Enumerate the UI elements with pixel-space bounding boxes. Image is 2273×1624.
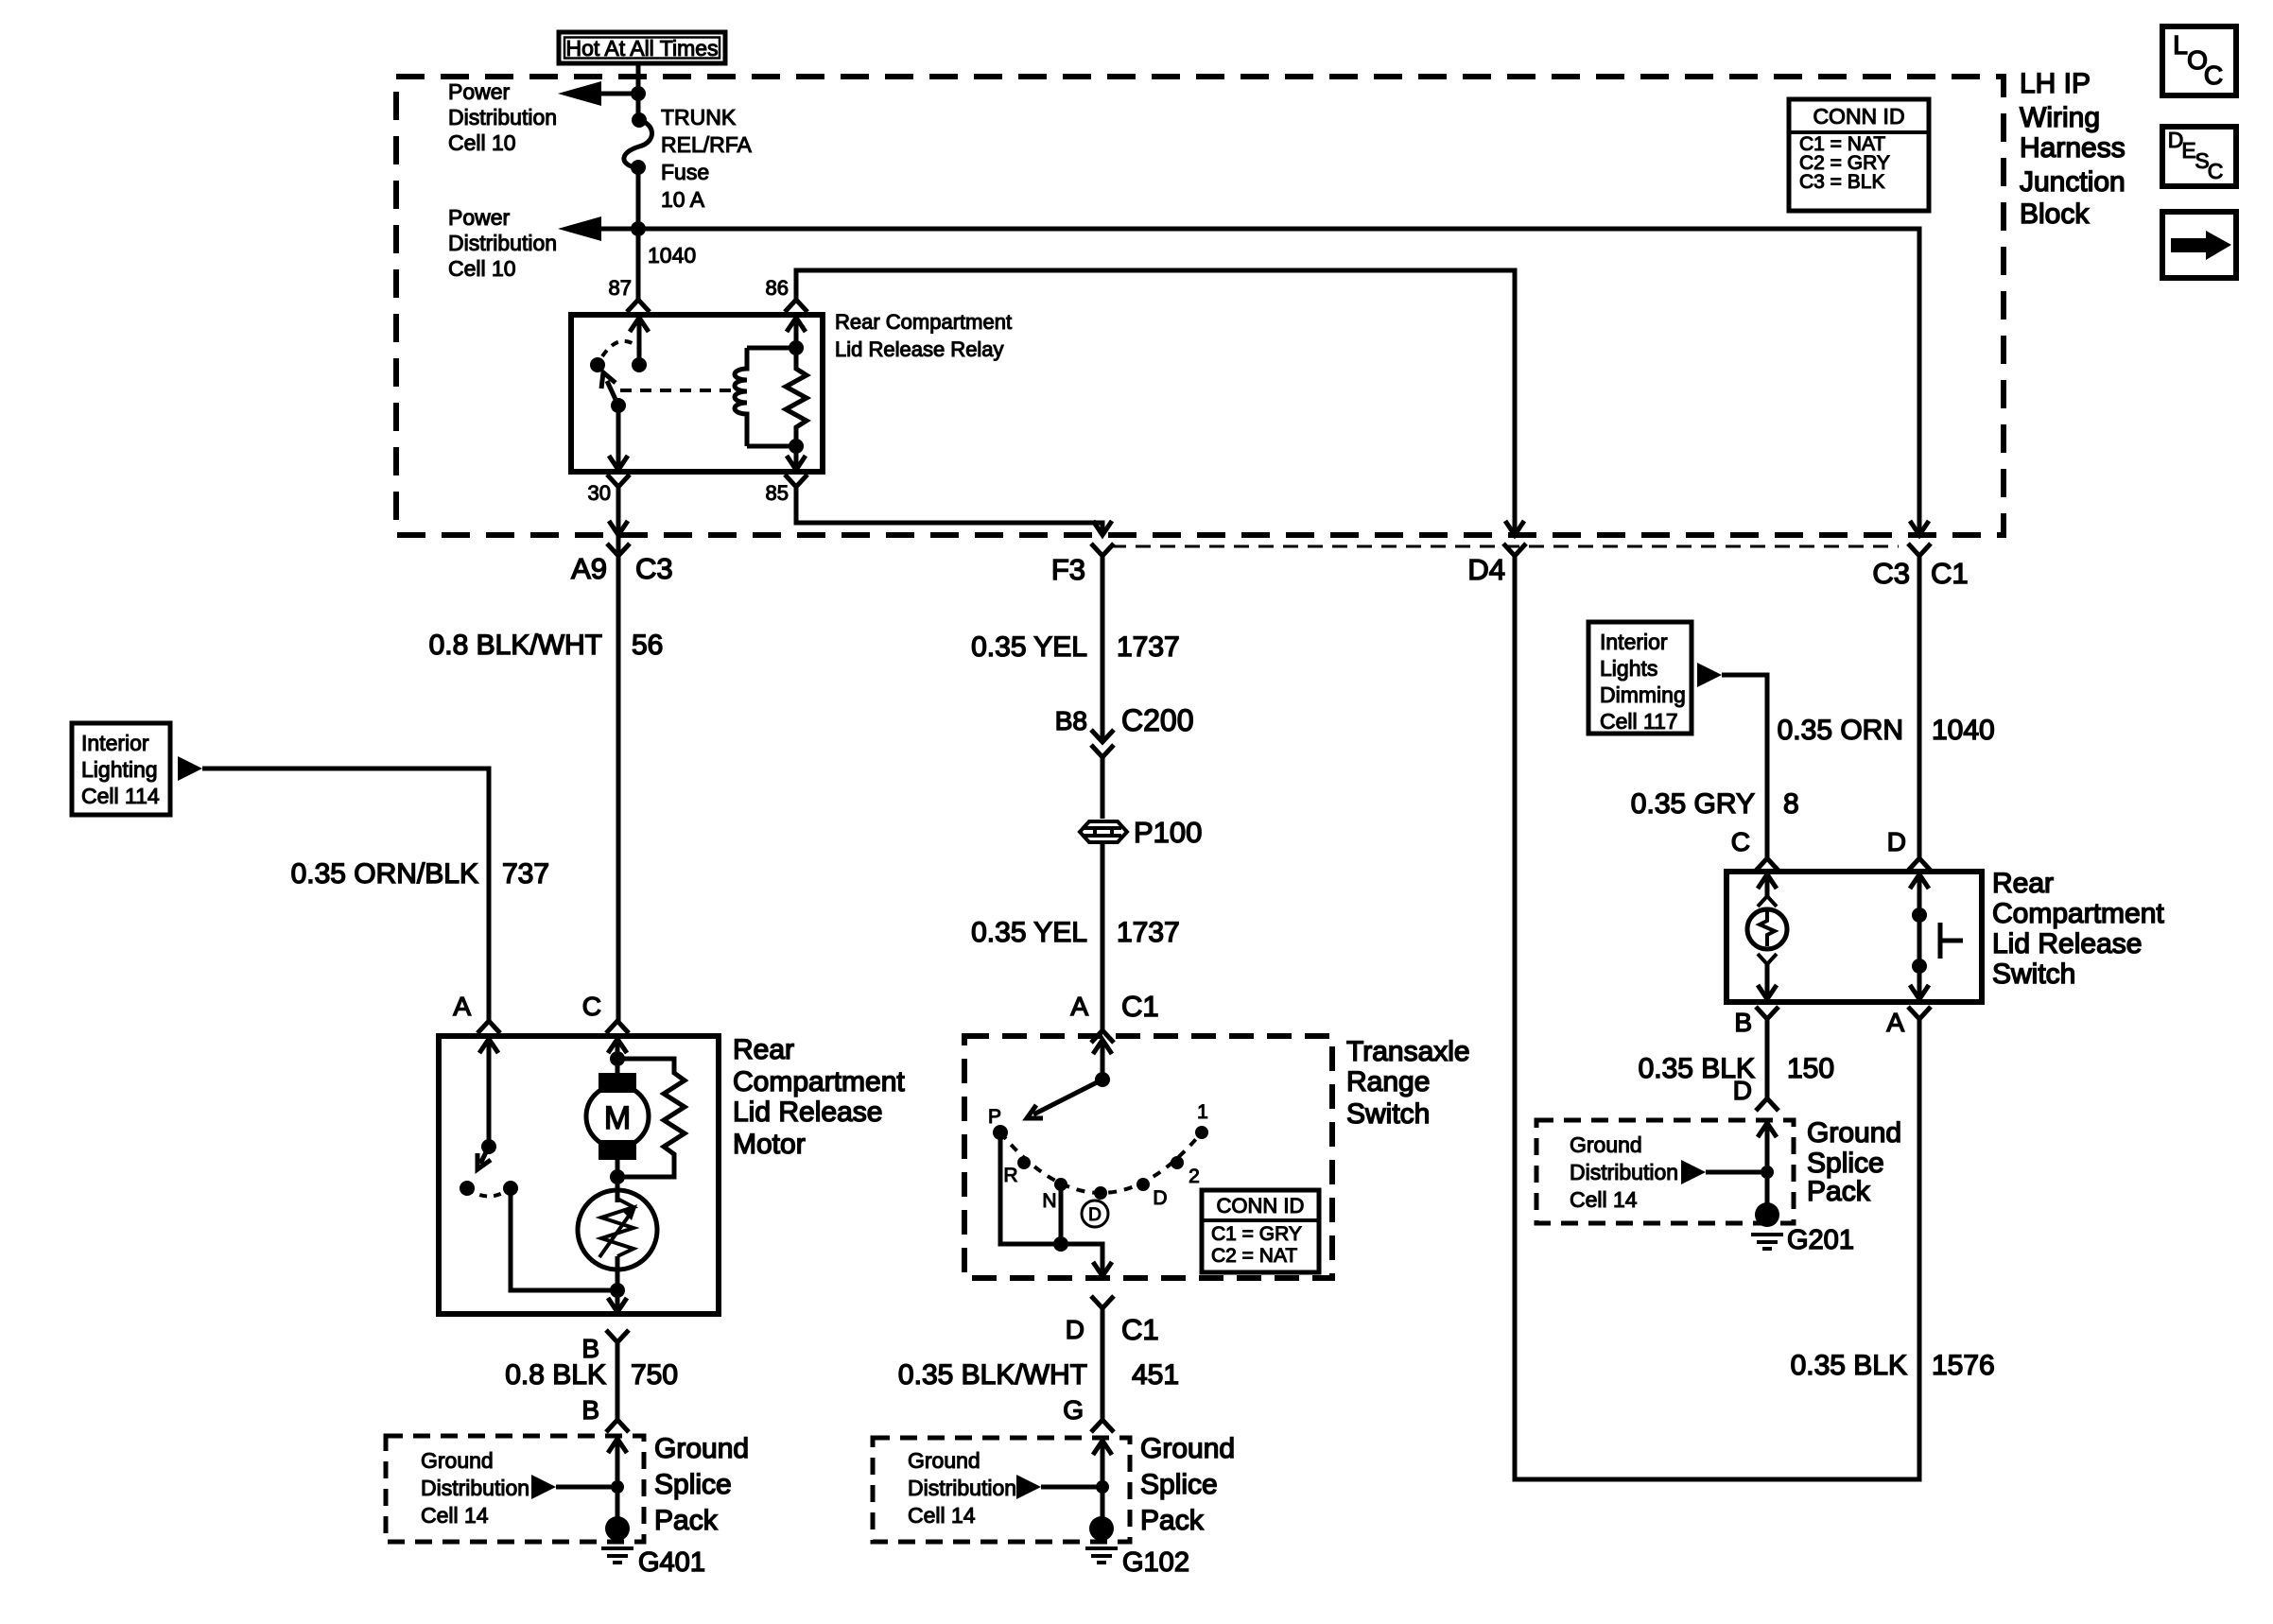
- arrow to Power Distribution (lower): [558, 216, 601, 241]
- svg-text:A: A: [1886, 1008, 1904, 1037]
- Ground Distribution Cell 14 box (right): [1536, 1120, 1794, 1223]
- motor pin C internal lead: [608, 1039, 627, 1053]
- svg-text:Splice: Splice: [654, 1469, 732, 1500]
- forward arrow legend box: [2162, 212, 2236, 278]
- svg-text:P100: P100: [1134, 816, 1202, 849]
- arrow from Ground Distribution (left): [531, 1475, 556, 1499]
- svg-text:Switch: Switch: [1992, 959, 2075, 990]
- svg-text:B: B: [581, 1395, 599, 1425]
- svg-text:D: D: [1153, 1187, 1167, 1209]
- svg-text:C1 = GRY: C1 = GRY: [1211, 1223, 1302, 1245]
- relay pin 87 internal lead: [630, 318, 649, 332]
- svg-text:G: G: [1063, 1395, 1084, 1425]
- boundary crossing arrow at D4: [1505, 521, 1524, 535]
- wire: switch pin B to ground splice pack: [1765, 1019, 1770, 1098]
- svg-text:Interior: Interior: [1600, 630, 1668, 654]
- connector chevron at transaxle pin A: [1091, 1030, 1114, 1043]
- wire: dimming feed to switch pin C: [1722, 675, 1767, 858]
- svg-text:Cell 10: Cell 10: [448, 130, 516, 155]
- circled D indicator: [1082, 1201, 1108, 1227]
- svg-text:750: 750: [631, 1359, 678, 1391]
- transaxle input lead: [1093, 1040, 1112, 1054]
- wire: fuse output down to relay pin 87: [636, 167, 641, 300]
- svg-text:150: 150: [1787, 1053, 1834, 1084]
- svg-text:Interior: Interior: [81, 731, 149, 755]
- svg-text:Splice: Splice: [1140, 1469, 1218, 1500]
- svg-text:86: 86: [766, 276, 789, 300]
- connector chevron D4: [1503, 544, 1526, 556]
- transaxle position arc (dashed): [1000, 1132, 1202, 1193]
- svg-text:G102: G102: [1122, 1547, 1189, 1578]
- motor switch branch wire: [511, 1188, 617, 1290]
- Ground Distribution Cell 14 box (left): [386, 1436, 644, 1542]
- svg-text:0.35 ORN: 0.35 ORN: [1778, 715, 1903, 746]
- svg-text:85: 85: [766, 481, 789, 505]
- svg-text:Transaxle: Transaxle: [1346, 1036, 1470, 1067]
- transaxle selector arm: [1033, 1080, 1102, 1114]
- transaxle position contacts: [993, 1125, 1008, 1140]
- LOC legend box: [2162, 26, 2236, 95]
- svg-text:Distribution: Distribution: [1570, 1160, 1678, 1184]
- svg-text:87: 87: [609, 276, 632, 300]
- CONN ID table (transaxle): [1202, 1190, 1319, 1272]
- svg-text:R: R: [1003, 1165, 1017, 1186]
- grommet P100: [1080, 821, 1127, 842]
- motor armature symbol: [599, 1073, 636, 1093]
- svg-text:C: C: [1731, 827, 1750, 856]
- motor switch contacts: [460, 1181, 475, 1196]
- svg-text:Range: Range: [1346, 1066, 1430, 1097]
- svg-text:D: D: [1733, 1076, 1752, 1105]
- svg-text:C3: C3: [635, 552, 673, 585]
- svg-text:N: N: [1042, 1190, 1056, 1212]
- svg-text:10 A: 10 A: [661, 187, 705, 212]
- svg-text:1737: 1737: [1117, 917, 1180, 948]
- svg-text:TRUNK: TRUNK: [661, 105, 737, 130]
- connector chevron at splice pack G: [1091, 1420, 1114, 1432]
- svg-text:Ground: Ground: [654, 1433, 749, 1464]
- svg-text:CONN ID: CONN ID: [1217, 1194, 1305, 1218]
- svg-text:Fuse: Fuse: [661, 160, 709, 184]
- connector chevron at transaxle pin D: [1091, 1296, 1114, 1308]
- svg-text:G401: G401: [638, 1547, 705, 1578]
- Ground Distribution Cell 14 box (middle): [873, 1438, 1130, 1542]
- connector chevron at motor pin C: [606, 1021, 629, 1033]
- svg-text:C3 = BLK: C3 = BLK: [1799, 171, 1884, 193]
- connector chevron F3: [1091, 544, 1114, 556]
- connector chevron C3/C1 (right): [1908, 544, 1931, 556]
- svg-text:A: A: [1070, 992, 1088, 1021]
- relay coil lead to pin 85: [794, 446, 799, 468]
- wire: motor pin B to ground splice pack: [616, 1342, 620, 1420]
- svg-text:Block: Block: [2020, 199, 2090, 230]
- relay K: Rear Compartment Lid Release Relay box: [571, 315, 823, 472]
- svg-text:A: A: [453, 992, 471, 1021]
- secondary harness boundary (thin dashed line): [1111, 545, 1899, 548]
- svg-text:Distribution: Distribution: [908, 1476, 1016, 1500]
- svg-text:Distribution: Distribution: [448, 105, 557, 130]
- relay internal resistor: [786, 348, 807, 446]
- splice pack lead (left): [608, 1439, 627, 1453]
- svg-text:Ground: Ground: [1140, 1433, 1235, 1464]
- svg-text:0.8 BLK/WHT: 0.8 BLK/WHT: [429, 630, 602, 661]
- svg-text:Pack: Pack: [1140, 1505, 1205, 1536]
- svg-text:Pack: Pack: [1807, 1176, 1871, 1207]
- CONN ID table (junction block): [1789, 99, 1929, 211]
- arrow from Interior Lighting reference: [178, 756, 202, 781]
- svg-text:LH IP: LH IP: [2020, 68, 2091, 99]
- relay common lead to pin 30: [616, 406, 621, 468]
- svg-text:Rear: Rear: [733, 1034, 794, 1065]
- svg-text:Ground: Ground: [908, 1448, 980, 1473]
- transaxle output arrow: [1093, 1262, 1112, 1276]
- boundary crossing arrow at F3: [1093, 521, 1112, 535]
- relay coil link (dashed): [620, 389, 734, 392]
- motor output lead to pin B: [610, 1283, 625, 1298]
- connector chevron at relay pin 87: [627, 300, 650, 312]
- ground G201: [1755, 1202, 1779, 1227]
- svg-text:Harness: Harness: [2020, 132, 2126, 164]
- svg-text:56: 56: [632, 630, 663, 661]
- svg-text:Dimming: Dimming: [1600, 682, 1686, 707]
- svg-text:1040: 1040: [1932, 715, 1995, 746]
- splice pack lead (right): [1758, 1123, 1777, 1137]
- svg-text:C200: C200: [1121, 703, 1194, 737]
- connector chevron at switch pin B: [1756, 1007, 1778, 1019]
- svg-text:Junction: Junction: [2020, 166, 2126, 198]
- svg-text:Hot At All Times: Hot At All Times: [565, 36, 718, 60]
- DESC legend box: [2162, 127, 2236, 186]
- connector chevron A9/C3: [607, 544, 630, 556]
- connector chevron at switch pin C: [1756, 858, 1778, 871]
- svg-text:C: C: [2204, 60, 2223, 90]
- svg-text:F3: F3: [1051, 553, 1085, 586]
- ground G102: [1089, 1516, 1114, 1541]
- connector chevron at switch pin D: [1908, 858, 1931, 871]
- Interior Lighting Cell 114 reference box: [72, 723, 170, 815]
- boundary crossing arrow at A9/C3: [609, 521, 628, 535]
- svg-text:Cell 114: Cell 114: [81, 784, 160, 808]
- svg-text:1040: 1040: [648, 243, 696, 268]
- motor M: Rear Compartment Lid Release Motor box: [439, 1036, 719, 1314]
- svg-text:Pack: Pack: [654, 1505, 719, 1536]
- svg-text:C: C: [582, 992, 601, 1021]
- svg-text:C1: C1: [1121, 1313, 1159, 1346]
- fuse TRUNK REL/RFA 10A symbol: [632, 112, 647, 128]
- wire: C200 to grommet P100: [1101, 757, 1105, 819]
- connector chevron at switch pin A: [1908, 1007, 1931, 1019]
- wire: transaxle pin D to ground splice pack: [1101, 1308, 1105, 1420]
- wire: D4 to lid release switch pin A: [1515, 556, 1919, 1479]
- svg-text:Cell 14: Cell 14: [1570, 1187, 1638, 1212]
- svg-text:Lights: Lights: [1600, 656, 1657, 681]
- relay fixed contact: [590, 357, 605, 372]
- svg-text:Lid Release: Lid Release: [1992, 928, 2142, 959]
- Hot At All Times power label box: [559, 32, 725, 63]
- svg-text:Cell 14: Cell 14: [908, 1503, 976, 1528]
- svg-text:0.35 GRY: 0.35 GRY: [1631, 788, 1755, 820]
- svg-text:737: 737: [502, 858, 549, 890]
- svg-text:8: 8: [1783, 788, 1799, 820]
- wire: relay pin 86 to junction block connector D4: [796, 270, 1515, 535]
- svg-text:C1: C1: [1931, 557, 1969, 590]
- connector chevron at motor pin A: [477, 1021, 500, 1033]
- wire: relay pin 30 down through connector C3 terminal A9: [616, 487, 621, 1021]
- LH IP wiring harness junction block boundary (dashed box): [396, 77, 2004, 535]
- svg-text:Lid Release: Lid Release: [733, 1097, 882, 1128]
- svg-text:Ground: Ground: [421, 1448, 494, 1473]
- svg-text:D: D: [1066, 1315, 1084, 1344]
- svg-text:0.35 YEL: 0.35 YEL: [971, 917, 1087, 948]
- svg-text:Power: Power: [448, 205, 511, 230]
- arrow from Interior Lights Dimming: [1697, 663, 1722, 687]
- svg-text:0.35 BLK: 0.35 BLK: [1791, 1350, 1907, 1381]
- svg-text:Rear: Rear: [1992, 868, 2054, 899]
- relay coil: [794, 315, 799, 348]
- splice pack lead (middle): [1093, 1441, 1112, 1455]
- svg-text:C3: C3: [1872, 557, 1910, 590]
- svg-text:B: B: [1734, 1008, 1752, 1037]
- svg-text:Ground: Ground: [1570, 1132, 1642, 1157]
- svg-text:M: M: [604, 1100, 631, 1136]
- svg-text:30: 30: [588, 481, 611, 505]
- svg-text:Distribution: Distribution: [448, 231, 557, 255]
- svg-text:Cell 117: Cell 117: [1600, 709, 1678, 734]
- svg-text:Switch: Switch: [1346, 1098, 1430, 1130]
- relay throw arc (dashed): [602, 341, 639, 356]
- ground G401: [605, 1516, 630, 1541]
- svg-text:0.8 BLK: 0.8 BLK: [505, 1359, 606, 1391]
- wire: tap to Power Distribution cell 10 (lower): [598, 227, 639, 232]
- arrow to Power Distribution (upper): [558, 81, 601, 106]
- connector chevron at splice pack B: [606, 1420, 629, 1432]
- motor circuit breaker: [616, 1177, 620, 1202]
- svg-text:A9: A9: [571, 552, 607, 585]
- svg-text:Splice: Splice: [1807, 1148, 1884, 1179]
- svg-text:2: 2: [1189, 1166, 1200, 1187]
- svg-text:0.35 BLK/WHT: 0.35 BLK/WHT: [898, 1359, 1087, 1391]
- connector chevron at relay pin 86: [785, 300, 807, 312]
- svg-text:REL/RFA: REL/RFA: [661, 132, 753, 157]
- svg-text:1576: 1576: [1932, 1350, 1995, 1381]
- inline connector C200 (double chevron): [1091, 730, 1114, 742]
- transaxle P contact wire: [1000, 1132, 1102, 1276]
- wire: fused feed across junction block to C3/C1 connector: [638, 229, 1919, 535]
- wire: interior lighting feed to motor pin A: [202, 769, 489, 1021]
- svg-text:Motor: Motor: [733, 1129, 806, 1160]
- svg-text:G201: G201: [1787, 1225, 1854, 1255]
- wire: F3 down to connector C200: [1101, 556, 1105, 741]
- node: power distribution tap 2: [631, 221, 646, 236]
- svg-text:Compartment: Compartment: [1992, 898, 2164, 929]
- node: power distribution tap 1: [631, 86, 646, 101]
- svg-text:0.35 YEL: 0.35 YEL: [971, 631, 1087, 663]
- svg-text:Rear Compartment: Rear Compartment: [835, 310, 1012, 334]
- svg-text:451: 451: [1132, 1359, 1179, 1391]
- svg-text:1737: 1737: [1117, 631, 1180, 663]
- transaxle range switch boundary (dashed box): [964, 1036, 1332, 1278]
- wire: P100 down to transaxle range switch pin A: [1101, 843, 1105, 1030]
- Interior Lights Dimming Cell 117 reference box: [1588, 622, 1692, 734]
- switch illumination lamp: [1758, 874, 1777, 889]
- connector chevron at relay pin 85: [785, 475, 807, 487]
- svg-text:Compartment: Compartment: [733, 1066, 905, 1097]
- arrow from Ground Distribution (middle): [1016, 1475, 1041, 1499]
- svg-text:Cell 14: Cell 14: [421, 1503, 489, 1528]
- svg-text:L: L: [2173, 30, 2188, 60]
- svg-text:B8: B8: [1055, 706, 1087, 735]
- svg-text:CONN ID: CONN ID: [1813, 104, 1904, 129]
- transaxle N contact wire: [1059, 1184, 1064, 1244]
- svg-text:D4: D4: [1467, 553, 1505, 586]
- svg-text:C: C: [2208, 159, 2224, 183]
- svg-text:D: D: [1887, 827, 1906, 856]
- motor shunt resistor: [617, 1059, 685, 1177]
- svg-text:0.35 ORN/BLK: 0.35 ORN/BLK: [291, 858, 478, 890]
- svg-text:P: P: [988, 1106, 1001, 1128]
- svg-text:Power: Power: [448, 79, 511, 104]
- svg-text:Cell 10: Cell 10: [448, 256, 516, 281]
- arrow from Ground Distribution (right): [1681, 1160, 1706, 1184]
- svg-text:Lighting: Lighting: [81, 757, 158, 782]
- svg-text:C1: C1: [1121, 990, 1159, 1023]
- relay movable arm: [607, 381, 618, 406]
- connector chevron at relay pin 30: [607, 475, 630, 487]
- svg-text:Distribution: Distribution: [421, 1476, 529, 1500]
- switch S: Rear Compartment Lid Release Switch box: [1726, 872, 1982, 1002]
- switch pushbutton contacts: [1910, 874, 1929, 889]
- relay arm pivot: [611, 398, 626, 413]
- wire: battery feed from Hot At All Times to fuse: [636, 63, 641, 118]
- wire: fused feed below boundary to lid release switch pin D: [1917, 556, 1922, 858]
- svg-text:C2 = NAT: C2 = NAT: [1211, 1245, 1297, 1267]
- connector chevron at motor pin B: [606, 1330, 629, 1342]
- motor pin A internal lead: [479, 1039, 498, 1053]
- connector chevron at splice pack D (right): [1756, 1098, 1778, 1111]
- wire: tap to Power Distribution cell 10 (upper): [598, 92, 639, 96]
- svg-text:Ground: Ground: [1807, 1117, 1901, 1149]
- wire: relay pin 85 to junction block connector F3: [796, 487, 1102, 535]
- motor switch throw arc (dashed): [467, 1188, 511, 1197]
- svg-text:Lid Release Relay: Lid Release Relay: [835, 337, 1004, 361]
- svg-text:Wiring: Wiring: [2020, 102, 2100, 133]
- motor internal switch arm: [480, 1147, 489, 1164]
- svg-text:D: D: [1088, 1205, 1102, 1225]
- boundary crossing arrow at C3/C1 (right): [1910, 521, 1929, 535]
- svg-text:1: 1: [1197, 1101, 1208, 1123]
